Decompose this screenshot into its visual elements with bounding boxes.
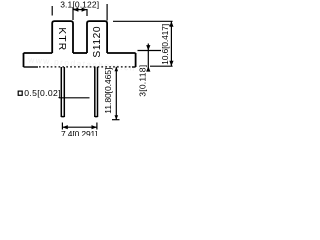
- svg-text:3.1[0.122]: 3.1[0.122]: [60, 0, 99, 9]
- plinth top edge left segment: [24, 52, 53, 54]
- bottom extension line (plinth bottom) for dims 10.6/3: [150, 65, 173, 67]
- lead 2 (right): [95, 67, 98, 117]
- tower T1 (left, KTR marking): [52, 21, 73, 53]
- dim 10.6 dimension line: [170, 21, 172, 66]
- svg-text:0.5[0.02]: 0.5[0.02]: [24, 88, 61, 98]
- leader line for square lead 0.5: [59, 97, 90, 99]
- dim 3 dimension line with outside tails: [147, 44, 149, 72]
- dim 11.8 bottom extension line (lead tip level): [112, 119, 120, 121]
- svg-text:10.6[0.417]: 10.6[0.417]: [160, 24, 170, 65]
- mid extension line (for dim 3 top): [138, 50, 162, 52]
- plinth bottom edge dashed middle part: [39, 66, 131, 68]
- dim 11.8 dimension line: [115, 67, 117, 120]
- dim 3.1 extension line left (above T1 right edge): [72, 7, 74, 20]
- arrow 3.1 left: [73, 8, 78, 12]
- dim 7.4 extension below lead1: [61, 123, 63, 130]
- plinth bottom edge solid left part: [24, 66, 39, 68]
- dim 3.1 dimension line: [73, 9, 87, 11]
- svg-text:S1120: S1120: [92, 26, 103, 58]
- plinth bottom edge solid right part: [132, 66, 136, 68]
- dim 7.4 extension below lead2: [96, 123, 98, 130]
- tower T2 (right, S1120 marking): [87, 21, 107, 53]
- svg-text:7.4[0.291]: 7.4[0.291]: [61, 129, 97, 136]
- dim 7.4 dimension line: [62, 126, 97, 128]
- arrow 7.4 left: [62, 125, 67, 129]
- plinth top edge right segment: [107, 52, 136, 54]
- top extension line for dim 10.6: [113, 20, 173, 22]
- svg-text:11.80[0.465]: 11.80[0.465]: [103, 68, 113, 114]
- extension line above tower T1 left edge: [51, 6, 53, 16]
- extension line above tower T2 right edge: [106, 4, 108, 21]
- square symbol of 0.5 label: [18, 91, 22, 95]
- svg-text:www.prodatasheet.cn: www.prodatasheet.cn: [27, 54, 136, 73]
- svg-text:KTR: KTR: [56, 27, 67, 51]
- arrow 10.6 bottom (down): [169, 61, 173, 66]
- plinth right edge: [135, 53, 137, 67]
- arrow 11.8 top (up): [115, 67, 119, 72]
- svg-text:3[0.118]: 3[0.118]: [137, 65, 147, 97]
- dim 3.1 extension line right (above T2 left edge): [86, 9, 88, 16]
- arrow 3 top (down, outside above): [146, 45, 150, 50]
- arrow 7.4 right: [92, 125, 97, 129]
- lead 1 (left): [61, 67, 64, 117]
- arrow 3.1 right: [82, 8, 87, 12]
- arrow 11.8 bottom (down): [115, 115, 119, 120]
- arrow 10.6 top (up): [169, 21, 173, 26]
- arrow 3 bottom (up, outside below): [146, 66, 150, 71]
- plinth slot floor between towers: [73, 52, 87, 54]
- plinth left edge: [23, 53, 25, 67]
